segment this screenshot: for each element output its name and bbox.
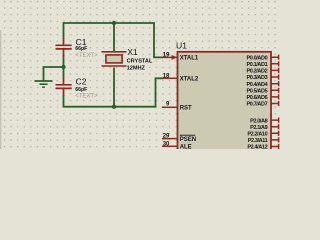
pin P0.7/AD7 <box>246 101 278 108</box>
svg-text:18: 18 <box>163 73 170 79</box>
pin P2.1/A9 <box>250 124 279 131</box>
pin 19 XTAL1 <box>163 52 199 61</box>
svg-text:U1: U1 <box>176 41 187 51</box>
svg-text:P2.3/A11: P2.3/A11 <box>248 138 268 144</box>
node junction top rail / crystal top <box>112 21 116 25</box>
svg-text:P0.4/AD4: P0.4/AD4 <box>246 82 268 88</box>
pin P2.3/A11 <box>248 137 279 144</box>
pin P0.3/AD3 <box>246 74 278 81</box>
wire ground rail to C1/C2 midpoint <box>44 55 64 81</box>
svg-text:RST: RST <box>180 106 192 112</box>
svg-text:19: 19 <box>163 52 170 58</box>
svg-text:C2: C2 <box>76 77 87 87</box>
svg-text:P0.3/AD3: P0.3/AD3 <box>246 75 267 81</box>
pin 9 RST <box>162 102 192 112</box>
ground <box>35 81 53 87</box>
wire top rail net XTAL1 <box>64 23 164 57</box>
svg-text:29: 29 <box>163 134 170 140</box>
svg-text:P0.6/AD6: P0.6/AD6 <box>246 95 267 101</box>
svg-text:P2.2/A10: P2.2/A10 <box>247 132 267 138</box>
pin P2.0/A8 <box>250 118 279 125</box>
pin P0.2/AD2 <box>246 68 278 75</box>
op-amp U1 microcontroller body <box>176 41 271 152</box>
svg-text:PSEN: PSEN <box>180 137 196 143</box>
svg-text:66pF: 66pF <box>75 46 87 52</box>
svg-text:P0.2/AD2: P0.2/AD2 <box>246 69 267 75</box>
svg-text:XTAL2: XTAL2 <box>180 77 199 83</box>
pin 18 XTAL2 <box>163 73 199 82</box>
svg-text:P0.7/AD7: P0.7/AD7 <box>246 102 267 108</box>
crystal X1 <box>102 47 153 72</box>
node junction bottom rail / crystal bottom <box>112 105 116 109</box>
pin P0.1/AD1 <box>246 61 278 68</box>
svg-text:30: 30 <box>163 141 170 147</box>
pin P2.4/A12 <box>247 144 278 151</box>
svg-text:P2.1/A9: P2.1/A9 <box>250 125 268 131</box>
pin P0.0/AD0 <box>246 55 278 62</box>
svg-text:X1: X1 <box>127 47 138 57</box>
svg-text:P2.0/A8: P2.0/A8 <box>250 118 268 124</box>
capacitor C1 <box>56 37 99 59</box>
svg-text:XTAL1: XTAL1 <box>180 56 199 62</box>
pin P0.5/AD5 <box>246 88 278 95</box>
svg-text:CRYSTAL: CRYSTAL <box>127 58 153 64</box>
svg-text:<TEXT>: <TEXT> <box>75 93 98 99</box>
svg-text:P0.5/AD5: P0.5/AD5 <box>246 89 267 95</box>
svg-text:P0.0/AD0: P0.0/AD0 <box>246 55 267 61</box>
svg-text:12MHZ: 12MHZ <box>127 65 146 71</box>
node junction C1-C2 midpoint <box>61 65 65 69</box>
pin 29 PSEN <box>162 134 196 143</box>
svg-text:P0.1/AD1: P0.1/AD1 <box>246 62 267 68</box>
svg-text:66pF: 66pF <box>75 87 87 93</box>
svg-text:ALE: ALE <box>180 145 192 149</box>
svg-text:P2.4/A12: P2.4/A12 <box>247 145 267 149</box>
pin P0.4/AD4 <box>246 81 278 88</box>
pin P0.6/AD6 <box>246 94 278 101</box>
wire bottom rail net XTAL2 <box>64 68 164 107</box>
pin P2.2/A10 <box>247 131 278 138</box>
svg-text:<TEXT>: <TEXT> <box>75 53 98 59</box>
pin 30 ALE <box>162 141 192 150</box>
capacitor C2 <box>56 77 99 100</box>
